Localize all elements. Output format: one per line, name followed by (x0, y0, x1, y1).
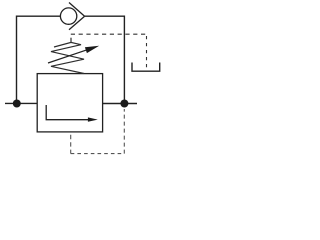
adjustment arrow shaft (48, 49, 89, 63)
node: right junction dot (120, 100, 128, 108)
wire: left inlet stub through left node to valve body (5, 102, 37, 104)
pilot sense line: dashed from valve bottom down (70, 135, 72, 154)
valve body U1: square envelope (37, 74, 102, 132)
flow path inside valve body (46, 105, 89, 120)
check valve C1: ball circle (60, 8, 76, 24)
wire: valve body outlet to right node stub (103, 103, 137, 105)
flow path arrowhead (88, 117, 98, 121)
wire: check valve seat apex to top-right corner down to right node (85, 16, 125, 103)
check valve C1: upper seat line (69, 3, 85, 17)
node: left junction dot (13, 100, 21, 108)
tank / reservoir symbol (132, 63, 160, 72)
spring top stub (70, 38, 72, 43)
spring zigzag (51, 42, 84, 73)
pilot sense line: dashed vertical up to right node (123, 109, 125, 154)
pilot sense line: dashed bottom horizontal (71, 153, 125, 155)
pilot line: dashed horizontal above spring (71, 33, 147, 35)
adjustment arrowhead (85, 46, 99, 53)
wire: left node up to top-left corner and right to check valve (17, 16, 61, 103)
pilot drain: dashed vertical to tank (146, 36, 148, 68)
check valve C1: lower seat line (69, 16, 85, 30)
